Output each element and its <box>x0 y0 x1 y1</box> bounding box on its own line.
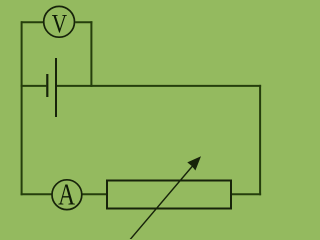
variable resistor arrow shaft <box>128 163 196 240</box>
wire: voltmeter right to corner <box>75 21 92 23</box>
wire: main horizontal right of battery <box>56 85 261 87</box>
wire: main horizontal left of battery <box>21 85 47 87</box>
wire: rheostat to bottom-right corner <box>231 193 261 195</box>
battery cell: long positive plate <box>55 58 57 117</box>
variable resistor arrowhead <box>187 156 201 170</box>
variable resistor body <box>107 181 231 209</box>
voltmeter V1 circle <box>44 6 75 37</box>
wire: voltmeter branch vertical <box>90 21 92 87</box>
battery cell: short negative plate <box>46 74 48 97</box>
wire: left vertical <box>21 21 23 195</box>
ammeter A1 circle <box>52 180 82 210</box>
wire: bottom left to ammeter <box>21 193 52 195</box>
wire: top-left horizontal to voltmeter <box>21 21 43 23</box>
svg-text:V: V <box>52 11 68 40</box>
svg-text:A: A <box>58 178 75 212</box>
wire: ammeter to rheostat <box>82 193 107 195</box>
wire: right vertical <box>259 85 261 195</box>
